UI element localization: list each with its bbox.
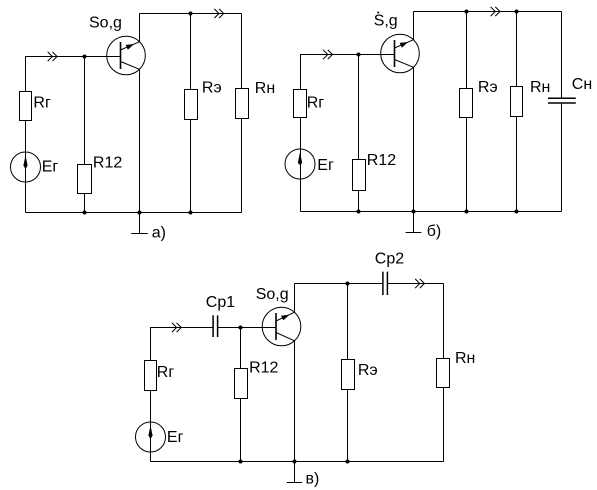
arrow: signal direction on output wire (в) (415, 279, 424, 288)
wire: R12 branch (в) (240, 328, 242, 462)
node: top rail / Rэ junction (б) (465, 10, 469, 14)
svg-text:Rэ: Rэ (358, 362, 378, 379)
svg-text:R12: R12 (93, 154, 122, 171)
resistor Rг (б) (294, 90, 307, 118)
label Cн (б) (572, 76, 592, 93)
arrow: signal direction on top rail (a) (214, 9, 223, 18)
ground (б) (406, 212, 422, 233)
svg-text:Rг: Rг (157, 364, 175, 381)
label в) (306, 471, 320, 488)
source Eг (a) (11, 152, 41, 182)
label So,g (a) (89, 15, 122, 32)
transistor So,g (в) (262, 307, 301, 346)
resistor R12 (б) (353, 160, 366, 191)
wire: Rэ branch (б) (466, 12, 468, 212)
resistor R12 (в) (235, 369, 248, 399)
node: R12/bottom rail (б) (357, 210, 361, 214)
svg-text:Cр1: Cр1 (206, 294, 235, 311)
wire: bottom rail (б) (301, 211, 562, 213)
node: Rэ/bottom rail (в) (346, 460, 350, 464)
svg-text:Rн: Rн (530, 79, 550, 96)
node: top rail / Rн junction (б) (515, 10, 519, 14)
wire: collector lead to top rail (б) (413, 12, 415, 40)
wire: Rэ branch (a) (190, 14, 192, 213)
resistor Rн (a) (236, 89, 249, 119)
wire: Rн branch (б) (516, 12, 518, 212)
svg-text:Cр2: Cр2 (375, 250, 404, 267)
wire: top rail (a) (140, 13, 242, 15)
arrow: signal direction on input wire (в) (172, 323, 181, 332)
svg-text:в): в) (306, 471, 320, 488)
ground (в) (287, 462, 302, 483)
wire: top rail (б) (414, 11, 562, 13)
wire: R12 branch (a) (84, 57, 86, 213)
resistor Rн (в) (437, 359, 450, 388)
node: Rэ/bottom rail (б) (465, 210, 469, 214)
resistor Rг (a) (20, 92, 32, 121)
capacitor Cр2 (в) (383, 272, 388, 295)
capacitor Cр1 (в) (213, 315, 218, 337)
svg-text:S,g: S,g (374, 13, 398, 30)
wire: bottom rail (в) (151, 461, 444, 463)
wire: emitter lead to bottom rail (б) (413, 67, 415, 211)
node: emitter/bottom rail (a) (138, 211, 142, 215)
label Rг (б) (307, 94, 325, 111)
label R12 (в) (249, 360, 278, 377)
node: top rail / Rэ junction (в) (346, 282, 350, 286)
svg-text:Rн: Rн (255, 80, 275, 97)
node: emitter/bottom rail (б) (412, 210, 416, 214)
svg-text:Rэ: Rэ (478, 79, 498, 96)
arrow: signal direction on top rail (б) (491, 7, 500, 16)
label Rэ (a) (202, 79, 222, 96)
resistor Rэ (б) (460, 89, 473, 118)
wire: collector lead to top rail (a) (139, 14, 141, 42)
node: base/R12 junction (a) (83, 55, 87, 59)
node: R12/bottom rail (в) (239, 460, 243, 464)
label Rг (в) (157, 364, 175, 381)
node: collector/bottom rail (в) (293, 460, 297, 464)
wire: emitter lead to bottom rail (a) (139, 69, 141, 212)
svg-text:Eг: Eг (317, 157, 334, 174)
label Rэ (б) (478, 79, 498, 96)
label Rн (в) (455, 350, 475, 367)
svg-text:R12: R12 (367, 152, 396, 169)
svg-text:Rг: Rг (33, 94, 51, 111)
svg-text:Eг: Eг (167, 429, 184, 446)
svg-text:б): б) (427, 223, 442, 240)
transistor Ṡ,g (б) (381, 34, 420, 73)
wire: Rн branch (в) (443, 284, 445, 462)
label б) (427, 223, 442, 240)
svg-text:Cн: Cн (572, 76, 592, 93)
label So,g (в) (256, 286, 289, 303)
node: top rail / Rэ junction (a) (189, 12, 193, 16)
wire: emitter lead to top rail (в) (294, 284, 296, 313)
source Eг (б) (285, 149, 315, 179)
svg-text:Rэ: Rэ (202, 79, 222, 96)
wire: R12 branch (б) (358, 55, 360, 212)
wire: bottom rail (a) (26, 212, 242, 214)
node: Rн/bottom rail (б) (515, 210, 519, 214)
label Ṡ,g (б) (374, 12, 398, 30)
capacitor Cн (б) (548, 98, 576, 103)
resistor Rэ (a) (185, 90, 198, 120)
label Cр2 (в) (375, 250, 404, 267)
wire: Cн branch lower (б) (561, 104, 563, 212)
node: Rэ/bottom rail (a) (189, 211, 193, 215)
label Eг (в) (167, 429, 184, 446)
svg-text:So,g: So,g (256, 286, 289, 303)
svg-text:R12: R12 (249, 360, 278, 377)
wire: Rн branch (a) (241, 14, 243, 213)
svg-text:Eг: Eг (42, 158, 59, 175)
label Rн (a) (255, 80, 275, 97)
svg-text:Rн: Rн (455, 350, 475, 367)
node: base/R12 junction (б) (357, 53, 361, 57)
resistor Rн (б) (511, 87, 523, 117)
wire: generator branch and input base wire (circuit a) (26, 57, 121, 213)
wire: generator branch and input base wire (circuit б) (301, 55, 395, 212)
label Rэ (в) (358, 362, 378, 379)
label R12 (б) (367, 152, 396, 169)
resistor R12 (a) (78, 165, 92, 194)
resistor Rг (в) (145, 361, 157, 391)
label а) (152, 225, 166, 242)
arrow: signal direction on input wire (б) (323, 50, 332, 59)
source Eг (в) (136, 422, 166, 452)
resistor Rэ (в) (342, 360, 355, 390)
transistor So,g (a) (107, 36, 146, 75)
label Cр1 (в) (206, 294, 235, 311)
wire: collector lead to bottom rail (в) (294, 341, 296, 462)
label Eг (б) (317, 157, 334, 174)
label Rн (б) (530, 79, 550, 96)
node: R12/bottom rail (a) (83, 211, 87, 215)
ground (a) (131, 213, 147, 234)
svg-text:а): а) (152, 225, 166, 242)
node: base/R12 junction (в) (239, 326, 243, 330)
label Eг (a) (42, 158, 59, 175)
svg-text:Rг: Rг (307, 94, 325, 111)
label Rг (a) (33, 94, 51, 111)
label R12 (a) (93, 154, 122, 171)
wire: Rэ branch (в) (347, 284, 349, 462)
wire: Cр1 to base (в) (218, 327, 276, 329)
wire: Cн branch upper (б) (561, 12, 563, 98)
wire: top rail to Cр2 (в) (295, 283, 383, 285)
wire: generator branch and input wire to Cр1 (circuit в) (151, 328, 214, 462)
arrow: signal direction on input wire (a) (48, 52, 57, 61)
svg-text:So,g: So,g (89, 15, 122, 32)
wire: Cр2 to Rн corner (в) (387, 283, 443, 285)
